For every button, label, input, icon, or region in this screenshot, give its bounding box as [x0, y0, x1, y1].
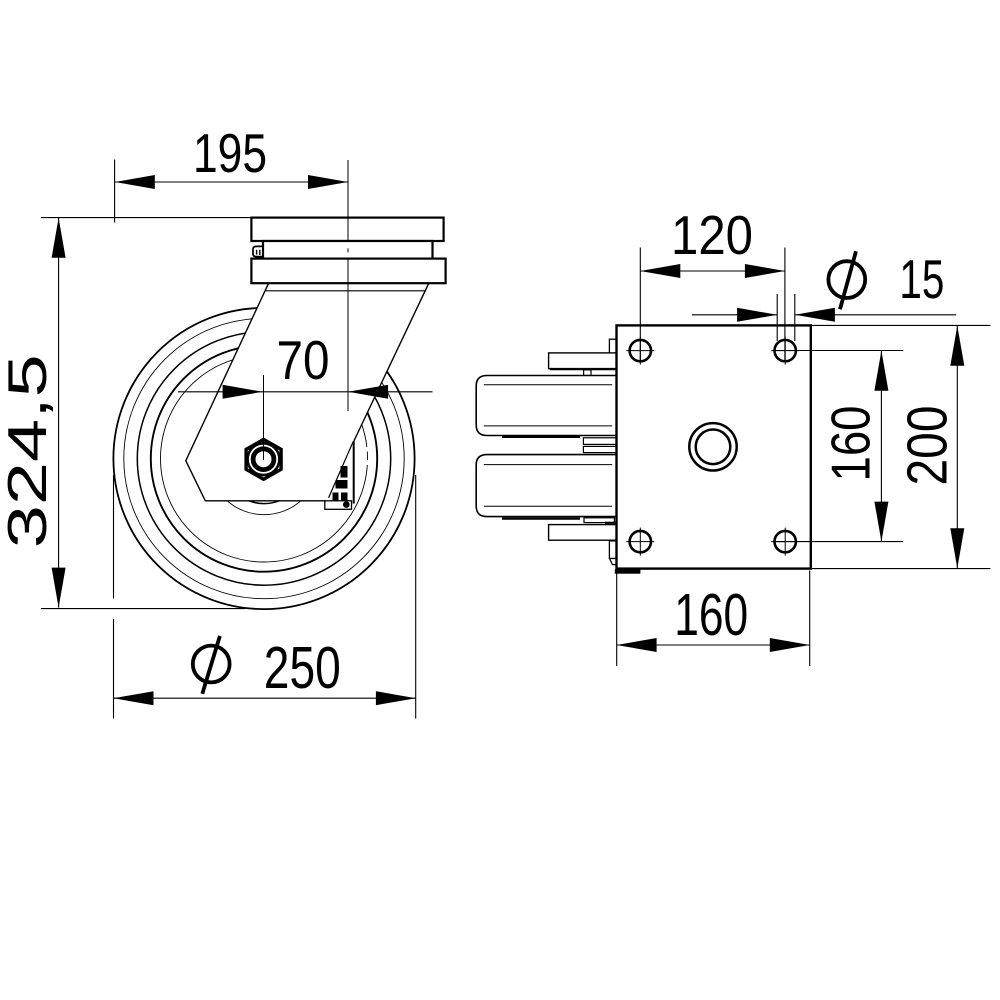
svg-text:120: 120: [671, 204, 753, 266]
svg-text:200: 200: [896, 406, 960, 486]
svg-text:70: 70: [277, 329, 330, 391]
svg-text:195: 195: [193, 122, 267, 184]
svg-text:15: 15: [899, 248, 944, 310]
svg-text:160: 160: [820, 406, 882, 482]
svg-text:160: 160: [674, 582, 748, 648]
svg-text:324,5: 324,5: [0, 354, 58, 548]
svg-text:250: 250: [264, 635, 341, 701]
